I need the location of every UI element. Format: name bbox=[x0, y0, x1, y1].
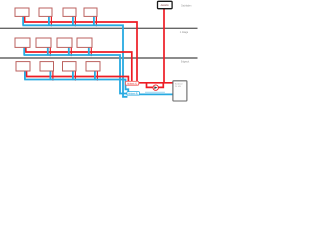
wire: supply stub radiator R1-3 bbox=[74, 16, 76, 26]
wire: return pipe floor 2 (cyan) bbox=[24, 48, 128, 94]
wire: supply pipe floor 1 (red) bbox=[24, 16, 137, 82]
label box: return collector (cyan) bbox=[127, 92, 140, 96]
wire: supply stub radiator R3-2 bbox=[52, 71, 54, 81]
svg-text:Heizkreis RL: Heizkreis RL bbox=[128, 93, 138, 96]
radiator R1-4 bbox=[84, 8, 97, 16]
pump P1 bbox=[153, 85, 158, 90]
wire: supply pipe floor 3 (red) bbox=[26, 71, 129, 82]
wire: supply pipe floor 2 (red) bbox=[25, 48, 132, 82]
boiler B1 bbox=[173, 81, 187, 101]
radiator R1-3 bbox=[63, 8, 76, 16]
wire: supply stub radiator R1-4 bbox=[95, 16, 97, 26]
wire: return stub radiator R3-4 bbox=[94, 71, 96, 80]
wire: return stub radiator R1-4 bbox=[93, 16, 95, 26]
label box: supply collector (red) bbox=[126, 81, 139, 85]
svg-text:1. Etage: 1. Etage bbox=[180, 30, 189, 34]
radiator R2-4 bbox=[77, 38, 92, 47]
wire: boiler return line (cyan) bbox=[140, 93, 174, 95]
wire: pump bypass loop left leg bbox=[147, 83, 153, 88]
svg-text:Erdgesch.: Erdgesch. bbox=[181, 60, 190, 64]
radiator R3-4 bbox=[86, 62, 100, 71]
floor line 2 bbox=[0, 57, 198, 59]
wire: return pipe floor 3 (cyan) bbox=[24, 71, 128, 92]
wire: return stub radiator R3-3 bbox=[72, 71, 74, 80]
roof expansion tank box bbox=[158, 1, 173, 8]
wire: pump bypass loop right leg bbox=[159, 83, 164, 88]
wire: boiler supply header (red) bbox=[139, 82, 174, 84]
wire: supply stub radiator R2-4 bbox=[90, 48, 92, 57]
radiator R1-2 bbox=[39, 8, 52, 16]
radiator R2-2 bbox=[36, 38, 51, 47]
wire: supply stub radiator R3-4 bbox=[96, 71, 98, 81]
wire: supply stub radiator R2-3 bbox=[70, 48, 72, 57]
wire: supply stub radiator R1-2 bbox=[50, 16, 52, 26]
wire: expansion safety line (light blue) bbox=[145, 91, 165, 93]
radiator R2-3 bbox=[57, 38, 72, 47]
svg-text:24 kW: 24 kW bbox=[175, 86, 181, 88]
wire: supply stub radiator R2-2 bbox=[49, 48, 51, 57]
radiator R2-1 bbox=[15, 38, 30, 47]
wire: return pipe floor 1 (cyan) bbox=[22, 16, 127, 97]
radiator R1-1 bbox=[15, 8, 29, 16]
wire: return stub radiator R1-3 bbox=[72, 16, 74, 26]
wire: return stub radiator R1-2 bbox=[48, 16, 50, 26]
wire: return stub radiator R3-2 bbox=[49, 71, 51, 80]
svg-text:Dachboden: Dachboden bbox=[181, 4, 191, 8]
svg-text:Ausdehn.: Ausdehn. bbox=[161, 4, 170, 7]
floor line 1 bbox=[0, 27, 198, 29]
wire: return stub radiator R2-2 bbox=[47, 48, 49, 56]
wire: return stub radiator R2-4 bbox=[88, 48, 90, 56]
radiator R3-3 bbox=[63, 62, 77, 71]
radiator R3-2 bbox=[40, 62, 54, 71]
svg-text:Heizkreis VL: Heizkreis VL bbox=[127, 82, 138, 85]
wire: main supply drop from roof expansion box bbox=[163, 9, 165, 83]
wire: return stub radiator R2-3 bbox=[68, 48, 70, 56]
radiator R3-1 bbox=[16, 62, 30, 71]
wire: supply stub radiator R3-3 bbox=[74, 71, 76, 81]
